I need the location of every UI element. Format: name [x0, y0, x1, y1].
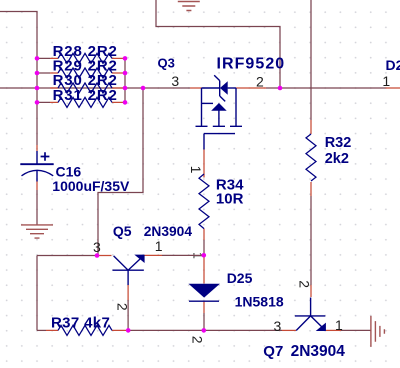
svg-text:IRF9520: IRF9520 — [217, 56, 286, 73]
svg-text:R31 2R2: R31 2R2 — [53, 87, 118, 104]
svg-text:D2: D2 — [386, 57, 400, 73]
svg-text:3: 3 — [171, 73, 179, 89]
svg-text:D25: D25 — [227, 270, 253, 286]
svg-text:1: 1 — [335, 317, 343, 333]
svg-text:1: 1 — [188, 166, 204, 174]
svg-text:2: 2 — [190, 336, 206, 344]
svg-text:2: 2 — [256, 74, 264, 90]
svg-text:R37 4k7: R37 4k7 — [51, 315, 110, 332]
svg-text:2: 2 — [296, 280, 312, 288]
svg-text:3: 3 — [93, 239, 101, 255]
svg-text:1000uF/35V: 1000uF/35V — [52, 178, 130, 194]
svg-text:2k2: 2k2 — [325, 151, 349, 167]
svg-text:2: 2 — [114, 303, 130, 311]
svg-text:2N3904: 2N3904 — [144, 224, 193, 239]
svg-text:Q7: Q7 — [263, 343, 283, 360]
svg-text:1N5818: 1N5818 — [235, 293, 284, 309]
svg-text:10R: 10R — [216, 191, 244, 208]
svg-text:1: 1 — [382, 73, 390, 89]
svg-text:R32: R32 — [325, 135, 352, 151]
svg-text:3: 3 — [274, 318, 282, 334]
svg-text:Q5: Q5 — [113, 223, 132, 239]
svg-text:Q3: Q3 — [158, 56, 175, 71]
svg-text:2N3904: 2N3904 — [291, 343, 346, 360]
svg-text:1: 1 — [155, 238, 163, 254]
